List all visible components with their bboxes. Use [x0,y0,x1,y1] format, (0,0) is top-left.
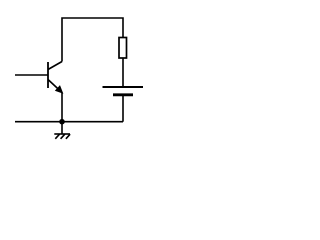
wire resistor to battery [122,58,124,87]
ground [54,122,70,139]
node junction dot [59,119,65,125]
wire bottom [15,121,123,123]
resistor R1 [119,38,127,59]
wire top (collector to resistor) [62,18,123,62]
transistor Q1 [48,62,63,93]
battery B1 [103,87,144,95]
wire emitter down [61,93,63,123]
wire battery to bottom [122,95,124,122]
wire base lead [15,74,48,76]
